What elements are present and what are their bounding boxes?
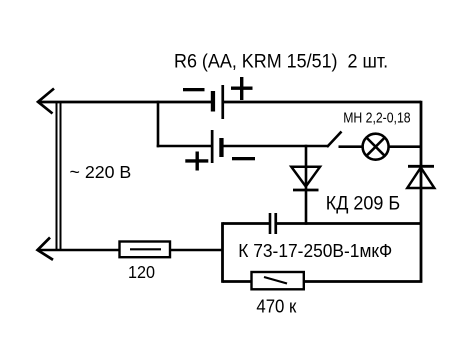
wire junction drop to second battery <box>157 101 160 148</box>
capacitor C1 left plate <box>269 213 272 234</box>
svg-text:~ 220 В: ~ 220 В <box>70 162 132 182</box>
battery GB2 plus sign <box>185 152 208 171</box>
battery GB2 negative plate (short thick) <box>219 138 223 157</box>
node A top terminal arrow (mains) <box>38 89 54 114</box>
resistor R2 power mark <box>264 277 287 284</box>
wire battery GB2 left <box>157 145 211 148</box>
svg-text:470 к: 470 к <box>256 296 296 317</box>
svg-text:К 73-17-250В-1мкФ: К 73-17-250В-1мкФ <box>238 240 392 261</box>
wire mains cord double line left <box>56 101 58 250</box>
wire battery GB2 to switch <box>222 145 328 148</box>
wire box top right of capacitor <box>277 222 421 225</box>
resistor R1 power mark <box>130 248 161 250</box>
wire diode VD1 vertical <box>305 145 308 225</box>
lamp HL1 cross <box>366 138 384 156</box>
diode VD1 cathode bar <box>293 189 319 192</box>
svg-text:120: 120 <box>128 262 155 282</box>
diode VD2 triangle <box>407 168 434 189</box>
battery GB2 minus sign <box>232 157 255 160</box>
svg-text:КД 209 Б: КД 209 Б <box>326 192 400 214</box>
wire resistor R1 to box <box>170 249 223 252</box>
wire top horizontal right segment <box>223 101 421 104</box>
switch SA1 fixed contact lead <box>339 145 364 148</box>
wire bottom input left <box>38 249 120 252</box>
wire box bottom left of R2 <box>223 280 252 283</box>
wire mains cord double line right <box>60 101 62 250</box>
battery GB1 plus sign <box>231 77 253 100</box>
switch SA1 blade <box>327 132 342 148</box>
wire box bottom right of R2 <box>304 280 423 283</box>
node B bottom terminal arrow (mains) <box>38 238 54 260</box>
wire top horizontal left segment <box>38 101 211 104</box>
lamp HL1 circle <box>363 134 389 160</box>
capacitor C1 right plate <box>274 213 277 234</box>
wire box top left of capacitor <box>223 222 270 225</box>
resistor R1 body <box>120 242 171 258</box>
battery GB1 negative plate (short thick) <box>211 91 215 112</box>
wire box left edge <box>221 222 224 283</box>
svg-text:R6 (АА, KRM 15/51) 2 шт.: R6 (АА, KRM 15/51) 2 шт. <box>174 50 388 72</box>
wire lamp to right rail <box>388 145 421 148</box>
wire right vertical rail <box>420 101 423 282</box>
resistor R2 body <box>252 272 304 289</box>
svg-text:МН 2,2-0,18: МН 2,2-0,18 <box>343 110 410 126</box>
diode VD1 triangle <box>291 167 320 187</box>
battery GB2 positive plate (long thin) <box>211 130 214 163</box>
battery GB1 minus sign <box>183 88 205 91</box>
diode VD2 cathode bar <box>408 165 434 168</box>
battery GB1 positive plate (long thin) <box>221 85 224 119</box>
